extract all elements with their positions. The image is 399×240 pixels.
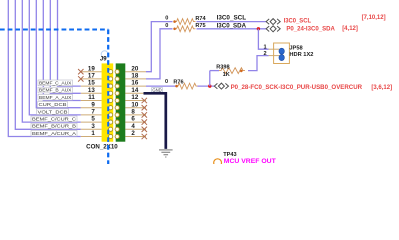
pin stub J9 pin 5 <box>81 121 102 123</box>
svg-text:P0_28-FC0_SCK-I3C0_PUR-USB0_OV: P0_28-FC0_SCK-I3C0_PUR-USB0_OVERCUR <box>231 85 363 91</box>
svg-text:BEMF_C/CUR_C: BEMF_C/CUR_C <box>32 117 77 123</box>
svg-text:BEMF_A_AUX: BEMF_A_AUX <box>39 95 72 101</box>
off-page connector symbol I3C0_SCL <box>266 19 280 25</box>
net label BEMF_C_AUX on pin 15 <box>38 80 73 87</box>
net label BEMF_A/CUR_A on pin 1 <box>31 130 77 137</box>
svg-text:0: 0 <box>165 16 168 22</box>
socket circle J9 pin 20 <box>115 70 119 74</box>
junction dot on I3C0_SDA at JP58 branch <box>257 27 260 30</box>
header JP58 body <box>274 43 290 64</box>
svg-text:2: 2 <box>263 51 266 57</box>
socket circle J9 pin 4 <box>115 127 119 131</box>
pin stub J9 pin 1 <box>81 136 102 138</box>
svg-text:3: 3 <box>91 123 95 130</box>
svg-text:JP58: JP58 <box>289 46 302 52</box>
socket circle J9 pin 6 <box>115 120 119 124</box>
svg-text:[4,12]: [4,12] <box>342 26 358 32</box>
pin stub J9 pin 15 <box>81 85 102 87</box>
pin stub J9 pin 12 <box>125 100 146 102</box>
wire from R76 to off-page <box>198 85 215 87</box>
hierarchical boundary redrawn on top (horizontal) <box>0 29 108 31</box>
no-connect X on J9 pin 6 <box>142 119 147 124</box>
connector J9 body: green column <box>116 63 126 141</box>
no-connect X on J9 pin 4 <box>142 127 147 132</box>
svg-text:BEMF_B_AUX: BEMF_B_AUX <box>39 88 72 94</box>
wire net riser x=29.3 to left pin row 7 <box>29 0 81 115</box>
wire from J9 pin 16 to R76 <box>146 85 176 87</box>
wire net riser x=15.3 to left pin row 3 <box>15 0 81 129</box>
socket circle J9 pin 2 <box>115 134 119 138</box>
socket circle J9 pin 14 <box>115 91 119 95</box>
svg-text:11: 11 <box>88 94 95 101</box>
svg-text:18: 18 <box>131 73 138 80</box>
socket circle J9 pin 16 <box>115 84 119 88</box>
svg-text:P0_24-I3C0_SDA: P0_24-I3C0_SDA <box>286 26 335 32</box>
svg-text:BEMF_B/CUR_B: BEMF_B/CUR_B <box>32 124 76 130</box>
wire I3C0_SCL from R74 to off-page <box>197 21 266 23</box>
socket circle J9 pin 8 <box>115 113 119 117</box>
pin stub J9 pin 13 <box>81 92 102 94</box>
svg-text:13: 13 <box>88 87 95 94</box>
svg-text:I3C0_SDA: I3C0_SDA <box>217 24 247 30</box>
svg-text:2: 2 <box>131 130 135 137</box>
svg-text:HDR 1X2: HDR 1X2 <box>289 52 313 58</box>
resistor R74 <box>175 19 196 25</box>
socket circle J9 pin 11 <box>109 98 113 102</box>
pin stub J9 pin 11 <box>81 100 102 102</box>
pin stub J9 pin 19 <box>81 71 102 73</box>
wire net riser x=57.5 to left pin row 15 <box>58 0 81 86</box>
pin stub J9 pin 16 <box>125 85 146 87</box>
pin stub J9 pin 8 <box>125 114 146 116</box>
svg-text:8: 8 <box>131 109 135 116</box>
no-connect X on J9 pin 10 <box>142 105 147 110</box>
wire net riser x=8.3 to left pin row 1 <box>8 0 81 137</box>
svg-text:0: 0 <box>165 23 168 29</box>
ground symbol <box>159 150 173 157</box>
svg-text:VOLT_DCB: VOLT_DCB <box>38 109 68 115</box>
svg-text:BEMF_C_AUX: BEMF_C_AUX <box>39 81 72 87</box>
svg-text:[3,6,12]: [3,6,12] <box>371 85 392 91</box>
off-page connector symbol P0_24-I3C0_SDA <box>266 26 280 32</box>
svg-text:I3C0_SCL: I3C0_SCL <box>284 18 312 24</box>
net label BEMF_B/CUR_B on pin 3 <box>31 123 77 130</box>
resistor R76 <box>176 83 198 89</box>
wire from R398 up to JP58 pin 2 <box>248 56 269 71</box>
svg-text:15: 15 <box>88 80 95 87</box>
junction dot at R398 branch <box>208 84 211 87</box>
pin stub J9 pin 9 <box>81 107 102 109</box>
pin stub J9 pin 18 <box>125 78 146 80</box>
svg-text:14: 14 <box>131 87 138 94</box>
pin stub J9 pin 2 <box>125 136 146 138</box>
wire net riser x=50.3 to left pin row 13 <box>50 0 81 93</box>
JP58 pin contacts (blue) <box>279 48 284 60</box>
pin stub J9 pin 17 <box>81 78 102 80</box>
net label BEMF_A_AUX on pin 11 <box>38 94 73 101</box>
pin stub J9 pin 3 <box>81 128 102 130</box>
svg-text:GND: GND <box>152 87 161 92</box>
svg-text:J9: J9 <box>100 57 107 63</box>
socket circle J9 pin 1 <box>109 134 113 138</box>
wire from J9 pin 20 up to I3C0_SCL <box>146 22 173 72</box>
svg-text:MCU VREF OUT: MCU VREF OUT <box>224 158 276 164</box>
socket circle J9 pin 13 <box>109 91 113 95</box>
GND net label <box>152 87 163 92</box>
pin stub J9 pin 6 <box>125 121 146 123</box>
svg-text:BEMF_A/CUR_A: BEMF_A/CUR_A <box>32 131 77 137</box>
hierarchical block boundary (dashed blue), vertical segment <box>107 30 109 165</box>
socket circle J9 pin 3 <box>109 127 113 131</box>
pin stub J9 pin 7 <box>81 114 102 116</box>
socket circle J9 pin 18 <box>115 77 119 81</box>
net label VOLT_DCB on pin 7 <box>37 109 69 116</box>
pin stub J9 pin 4 <box>125 128 146 130</box>
svg-text:R76: R76 <box>173 79 183 85</box>
pin stub JP58 pin 2 <box>269 55 280 57</box>
socket circle J9 pin 17 <box>109 77 113 81</box>
net label BEMF_B_AUX on pin 13 <box>38 87 73 94</box>
pin stub J9 pin 20 <box>125 71 146 73</box>
wire riser from junction up to R398 <box>209 71 211 87</box>
svg-text:CON_2X10: CON_2X10 <box>86 145 118 151</box>
wire net riser x=43.3 to left pin row 11 <box>43 0 81 101</box>
svg-text:17: 17 <box>88 73 95 80</box>
wire net riser x=22.3 to left pin row 5 <box>22 0 81 122</box>
svg-text:4: 4 <box>131 123 135 130</box>
wire from J9 pin 18 up to I3C0_SDA <box>146 29 173 79</box>
socket circle J9 pin 9 <box>109 106 113 110</box>
svg-text:10: 10 <box>131 101 138 108</box>
marker circle on boundary above J9 <box>101 51 108 58</box>
no-connect X on J9 pin 8 <box>142 112 147 117</box>
pin stub JP58 pin 1 <box>269 48 280 50</box>
svg-text:[7,10,12]: [7,10,12] <box>362 15 386 21</box>
pin stub J9 pin 14 <box>125 92 146 94</box>
svg-text:1: 1 <box>263 45 266 51</box>
hierarchical block boundary (dashed blue), horizontal segment <box>0 29 108 31</box>
svg-text:7: 7 <box>91 109 95 116</box>
svg-text:I3C0_SCL: I3C0_SCL <box>217 16 247 22</box>
hierarchical boundary redrawn on top (vertical through J9) <box>107 30 109 165</box>
svg-text:1: 1 <box>91 130 95 137</box>
pin stub J9 pin 10 <box>125 107 146 109</box>
no-connect X on J9 pin 17 <box>78 76 83 81</box>
svg-text:9: 9 <box>91 101 95 108</box>
net label CUR_DCB on pin 9 <box>38 102 68 109</box>
svg-text:16: 16 <box>131 80 138 87</box>
wire I3C0_SDA from R75 to off-page <box>197 28 266 30</box>
wire net riser x=36.3 to left pin row 9 <box>36 0 81 108</box>
connector J9 body: yellow column <box>102 63 114 141</box>
socket circle J9 pin 5 <box>109 120 113 124</box>
svg-text:1K: 1K <box>223 72 230 78</box>
svg-text:CUR_DCB: CUR_DCB <box>39 102 67 108</box>
svg-text:R398: R398 <box>216 65 229 71</box>
no-connect X on J9 pin 2 <box>142 134 147 139</box>
socket circle J9 pin 7 <box>109 113 113 117</box>
no-connect X on J9 pin 19 <box>78 69 83 74</box>
GND thick wire from J9 pin 14 <box>144 93 166 149</box>
svg-text:19: 19 <box>88 65 95 72</box>
svg-text:6: 6 <box>131 116 135 123</box>
wire I3C0_SDA branch down to JP58 pin 1 <box>258 29 268 49</box>
svg-text:0: 0 <box>165 79 168 85</box>
test point TP43 circle <box>214 159 222 167</box>
off-page connector symbol P0_28-FC0_SCK <box>214 83 228 89</box>
socket circle J9 pin 12 <box>115 98 119 102</box>
resistor R75 <box>175 26 196 32</box>
svg-text:12: 12 <box>131 94 138 101</box>
svg-text:R74: R74 <box>195 16 206 22</box>
net label BEMF_C/CUR_C on pin 5 <box>31 116 77 123</box>
svg-text:5: 5 <box>91 116 95 123</box>
svg-text:R75: R75 <box>195 23 205 29</box>
no-connect X on J9 pin 12 <box>142 98 147 103</box>
svg-text:20: 20 <box>131 65 138 72</box>
socket circle J9 pin 15 <box>109 84 113 88</box>
socket circle J9 pin 19 <box>109 70 113 74</box>
socket circle J9 pin 10 <box>115 106 119 110</box>
resistor R398 <box>210 70 219 72</box>
